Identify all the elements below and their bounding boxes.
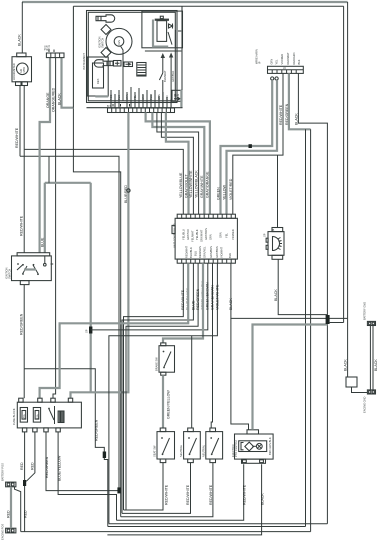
svg-text:FUSE BLOCK: FUSE BLOCK: [12, 408, 16, 425]
instrument panel outer box: [73, 6, 182, 107]
svg-text:15A: 15A: [35, 414, 39, 419]
svg-text:ORANGE: ORANGE: [46, 92, 50, 108]
svg-text:GRN: GRN: [157, 94, 161, 100]
svg-text:ENGINE POS: ENGINE POS: [0, 524, 4, 540]
svg-text:GRN: GRN: [209, 234, 213, 240]
wire hourmeter left pin down: [19, 86, 21, 157]
svg-text:SEAT SW: SEAT SW: [153, 445, 157, 457]
switch blade diagonal: [168, 32, 172, 45]
pin tick right: [178, 30, 181, 32]
diode arrow right of battery: [169, 24, 173, 29]
svg-text:RED/WHITE: RED/WHITE: [181, 289, 185, 310]
svg-text:BATTERY POS: BATTERY POS: [0, 463, 4, 481]
svg-text:ORANGE/RED: ORANGE/RED: [51, 87, 55, 112]
wire RED/GREEN gray to right: [289, 73, 311, 129]
wire RED/WHITE from controller pin1: [124, 263, 184, 510]
svg-text:RED/GREEN: RED/GREEN: [45, 456, 49, 478]
svg-text:VIOLET/WHITE: VIOLET/WHITE: [215, 284, 219, 310]
fuse F1: [20, 408, 27, 423]
svg-text:BLACK: BLACK: [229, 298, 233, 310]
key symbol lower: [94, 60, 113, 67]
svg-text:SP: SP: [262, 233, 266, 237]
svg-text:GRY/ORN: GRY/ORN: [204, 228, 208, 240]
svg-text:RED: RED: [20, 462, 24, 470]
wire RED/WHITE to ignition switch: [23, 149, 25, 252]
svg-text:BLUE/YELLOW: BLUE/YELLOW: [58, 455, 62, 481]
gray stub right edge: [180, 90, 182, 107]
ignition right pin tick: [51, 263, 54, 265]
brake switch S2: [159, 346, 175, 373]
svg-text:RED/WHITE: RED/WHITE: [209, 484, 213, 505]
fuse box FB1: [17, 402, 81, 428]
ignition internal bar gray: [24, 268, 36, 270]
svg-text:VIO/RED: VIO/RED: [231, 229, 235, 240]
wire GRAY/BROWN pin7: [211, 263, 212, 428]
bus line L6: [108, 526, 306, 528]
svg-text:ENGINE GND: ENGINE GND: [363, 396, 367, 413]
svg-text:GRN: GRN: [270, 59, 274, 65]
connector strip under box: [108, 108, 175, 113]
MIDLEFT: [4, 253, 53, 285]
svg-text:RES: RES: [96, 78, 100, 84]
svg-text:GRAY/ORANGE: GRAY/ORANGE: [206, 171, 210, 198]
svg-text:VIOLET/RED: VIOLET/RED: [229, 178, 233, 200]
svg-text:BLUE: BLUE: [40, 237, 44, 247]
RIGHTSIDE: [326, 302, 377, 413]
switch S3: [157, 432, 175, 459]
coil hatch element: [137, 63, 146, 77]
wire RED/GREEN into fusebox: [23, 369, 25, 399]
instrument panel inner box: [87, 11, 178, 103]
RIGHTTOP: [217, 49, 328, 532]
small box with B at right bottom: [172, 90, 182, 101]
svg-text:RED: RED: [24, 510, 28, 518]
svg-text:RED/WHITE: RED/WHITE: [279, 104, 283, 125]
svg-text:YEL: YEL: [133, 95, 137, 100]
svg-text:BLUE/RED: BLUE/RED: [124, 185, 128, 203]
svg-text:INSTRUMENT: INSTRUMENT: [82, 53, 86, 70]
fan wire YELLOW/WHITE: [161, 113, 193, 215]
svg-text:RED/GRN: RED/GRN: [198, 246, 202, 258]
svg-text:YELLOW/WHITE: YELLOW/WHITE: [189, 170, 193, 198]
inline connector box: [346, 377, 357, 387]
node SP splice on x90.7: [89, 327, 92, 334]
svg-text:GRAY/VIOLET: GRAY/VIOLET: [184, 173, 188, 198]
svg-text:YEL/WHT: YEL/WHT: [191, 230, 195, 242]
wire RED/WHITE below S5: [121, 463, 213, 517]
svg-text:BLK: BLK: [297, 59, 301, 64]
wire inner top bus: [73, 5, 343, 7]
CENTER: [40, 155, 348, 524]
wire BLUE horizontal: [45, 182, 91, 184]
wire from inline connector to engine ground: [352, 387, 368, 393]
wire RED/WHITE below S3: [124, 463, 164, 510]
BIGBOX: [71, 6, 210, 398]
svg-text:RED/GRN: RED/GRN: [292, 52, 296, 64]
controller top pin strip: [177, 214, 235, 218]
svg-text:FWD: FWD: [44, 47, 50, 51]
svg-text:GREEN: GREEN: [217, 187, 221, 200]
wire BLACK between ground connectors: [370, 326, 373, 390]
controller left tab: [172, 225, 175, 233]
svg-text:RED/WHITE: RED/WHITE: [15, 127, 19, 148]
svg-text:YEL/BLU: YEL/BLU: [182, 229, 186, 240]
wire RED from fuse box: [24, 432, 26, 532]
bus line L7: [21, 531, 311, 533]
wire border inner to splice: [330, 322, 344, 324]
svg-text:GRY/WHT: GRY/WHT: [200, 229, 204, 242]
wire BLACK pin9 down to PTO: [231, 318, 249, 429]
ignition switch contacts: [17, 263, 19, 265]
node splice on red/green riser: [103, 452, 106, 459]
wire RED/GREEN branch right: [24, 369, 108, 527]
key symbol upper: [96, 15, 115, 22]
battery body: [157, 21, 167, 42]
wire run y151.5 to controller: [24, 149, 183, 214]
svg-text:RED/WHITE: RED/WHITE: [164, 484, 168, 505]
fuse box bottom tabs: [22, 428, 26, 432]
svg-text:RED/WHITE: RED/WHITE: [186, 484, 190, 505]
wire BLUE/BLACK pin2: [122, 263, 193, 513]
svg-text:GRY: GRY: [141, 94, 145, 100]
svg-text:PTO CLUTCH: PTO CLUTCH: [234, 440, 238, 457]
fuse F2: [33, 408, 40, 423]
PTO clutch box: [235, 434, 274, 459]
small component box c: [114, 61, 122, 67]
buzzer symbol: [273, 237, 280, 251]
battery box internal vertical: [174, 30, 176, 47]
wire RED between posts: [10, 487, 12, 528]
svg-text:BLACK: BLACK: [274, 289, 278, 301]
wire RED/WHITE below S4: [122, 463, 191, 514]
wire BLACK to x327.4: [298, 73, 327, 523]
svg-text:BLACK: BLACK: [260, 493, 264, 505]
svg-text:GRN/YEL: GRN/YEL: [203, 246, 207, 258]
wire BLACK below PTO: [107, 464, 261, 535]
battery post B+: [6, 482, 16, 487]
wire run y172 from box edge to bundle: [73, 108, 120, 517]
svg-text:RED/WHITE: RED/WHITE: [19, 215, 23, 236]
up arrow contact 1: [161, 53, 165, 58]
svg-text:GRAY/WHITE: GRAY/WHITE: [200, 175, 204, 198]
wire ORANGE/RED long vertical: [53, 58, 56, 399]
wire BLUE gray pin3: [40, 263, 189, 398]
svg-text:YEL/BLK: YEL/BLK: [195, 229, 199, 240]
wire gray from right blob to PTO: [253, 325, 328, 430]
svg-text:SWITCH: SWITCH: [7, 269, 11, 279]
svg-text:RED/WHT: RED/WHT: [185, 245, 189, 258]
gray bar under resistor box: [95, 95, 108, 97]
wire BLUE drop to ignition switch: [44, 183, 46, 253]
svg-text:SP: SP: [85, 329, 89, 333]
TOPLEFT: [12, 45, 64, 86]
strip pin ticks: [113, 104, 130, 107]
svg-text:GREEN/BROWN: GREEN/BROWN: [206, 282, 210, 310]
hourmeter top tab: [17, 53, 26, 57]
wire BLACK from buzzer: [278, 259, 327, 314]
hourmeter bottom tabs: [16, 82, 22, 86]
BOTTOMCENTER: [21, 325, 328, 535]
svg-text:RED: RED: [109, 94, 113, 100]
svg-text:BRN GRN BLK: BRN GRN BLK: [268, 437, 272, 455]
battery ground connector: [367, 321, 375, 325]
wire to SW2 from bus: [191, 336, 193, 428]
svg-text:YEL: YEL: [274, 59, 278, 64]
switch S5: [206, 432, 223, 459]
ignition blade 1: [17, 265, 23, 271]
battery cap: [155, 19, 169, 21]
wire from ignition contact down: [121, 46, 124, 101]
svg-text:BLACK: BLACK: [57, 93, 61, 105]
svg-text:RED/WHT: RED/WHT: [286, 52, 290, 65]
wire VIOLET/RED: [233, 73, 283, 214]
svg-text:VIO/RED: VIO/RED: [280, 54, 284, 65]
svg-text:RED/GREEN: RED/GREEN: [196, 288, 200, 310]
wire RED/WHITE below PTO: [117, 464, 244, 520]
BOTTOMLEFT: [0, 398, 120, 540]
battery sub-box: [142, 11, 183, 48]
connector J2: [46, 53, 64, 58]
fan wire GRAY/ORANGE: [146, 113, 210, 215]
wire RED/GREEN from ignition switch: [23, 285, 25, 369]
interior divider line: [145, 50, 182, 52]
controller bottom pin strip: [177, 259, 235, 263]
wire RED stub with diagonal: [26, 432, 35, 481]
wire RED/GREEN from fuse box: [46, 432, 119, 491]
switch S4: [184, 432, 201, 459]
resistor sub-box left: [87, 57, 108, 96]
svg-text:RED: RED: [7, 510, 11, 518]
fan wire GRAY/WHITE: [152, 113, 204, 215]
wire right border outer: [347, 2, 349, 318]
svg-text:BLU: BLU: [194, 251, 198, 256]
internal wires to strip: [111, 87, 171, 108]
svg-text:BR: BR: [174, 94, 179, 98]
buzzer U2 box: [268, 232, 284, 256]
up arrow contact 2: [169, 53, 173, 58]
svg-text:RED: RED: [30, 462, 34, 470]
svg-text:BLU: BLU: [149, 95, 153, 100]
diamond upper: [101, 25, 111, 35]
connector J3 top right: [268, 66, 304, 73]
relay K1 coil: [58, 411, 64, 423]
fan wire GRAY/VIOLET: [166, 113, 189, 215]
svg-text:GRN: GRN: [219, 232, 223, 238]
wire ORANGE from connector: [40, 58, 50, 253]
svg-text:NEUTRAL: NEUTRAL: [179, 444, 183, 457]
svg-text:BLK: BLK: [228, 253, 232, 258]
svg-text:BLK/WHT: BLK/WHT: [163, 70, 167, 82]
svg-text:MTR: MTR: [22, 67, 26, 73]
wire GREEN/YELLOW pin5: [91, 263, 208, 330]
svg-text:YEL: YEL: [225, 233, 229, 238]
svg-text:RED/GREEN: RED/GREEN: [285, 103, 289, 125]
svg-text:GRY/VIO: GRY/VIO: [186, 229, 190, 240]
svg-text:B: B: [273, 228, 275, 232]
wire YELLOW gray: [227, 80, 278, 214]
wire GREEN/YELLOW gray below S2: [162, 375, 164, 428]
svg-text:BLACK: BLACK: [18, 34, 22, 46]
ignition pin circle: [44, 263, 47, 266]
svg-text:GRN/BRN: GRN/BRN: [209, 246, 213, 258]
wire BLUE/YELLOW from fuse box: [58, 432, 116, 520]
wire hourmeter right pin down: [23, 86, 25, 150]
svg-text:IP: IP: [258, 61, 262, 64]
svg-text:GRY/BRN: GRY/BRN: [215, 246, 219, 258]
svg-text:YELLOW: YELLOW: [223, 184, 227, 200]
svg-text:BRAKE SW: BRAKE SW: [155, 357, 159, 371]
ignition blade 2: [23, 266, 28, 274]
svg-text:B.S: B.S: [107, 104, 111, 108]
buzzer U2 feed wire: [277, 155, 279, 227]
bus line L5: [109, 523, 328, 525]
svg-text:RED/WHITE: RED/WHITE: [242, 484, 246, 505]
ignition switch circle: [106, 28, 132, 54]
gray bar under battery box: [152, 20, 168, 47]
splice rings under J3: [271, 77, 274, 80]
ignition switch S1 box: [12, 256, 52, 281]
wire from post elbow: [15, 487, 21, 532]
wire BLACK pin9: [231, 263, 348, 318]
wire BLUE/RED gray from strip: [71, 113, 129, 399]
svg-text:YELLOW/BLUE: YELLOW/BLUE: [179, 172, 183, 198]
node splice blob on red: [23, 480, 26, 486]
connector J2 pins above: [49, 50, 54, 53]
ignition switch top strip: [17, 253, 50, 256]
node splice bundle: [117, 487, 120, 493]
ignition blade 3: [33, 265, 38, 274]
node main ground splice: [326, 315, 330, 324]
node splice on green run: [249, 144, 252, 148]
wire BLACK from connector to box edge: [62, 58, 74, 108]
svg-text:VIO/WHT: VIO/WHT: [220, 246, 224, 258]
battery post engine: [6, 528, 16, 533]
svg-text:BATTERY GND: BATTERY GND: [363, 302, 367, 320]
svg-text:BLU/BLK: BLU/BLK: [189, 247, 193, 258]
wire GREEN/BROWN gray pin6: [163, 263, 203, 343]
wire ground run to battery lead: [347, 318, 349, 377]
fan wire YELLOW/BLACK: [157, 113, 199, 215]
wire GREEN gray: [221, 80, 273, 214]
svg-text:BLK: BLK: [117, 95, 121, 100]
wire stub x49: [48, 156, 50, 183]
ignition inner circle: [114, 37, 124, 47]
svg-text:VIO: VIO: [165, 96, 169, 100]
ignition switch bottom tab: [20, 281, 29, 285]
controller U1 main box: [175, 218, 237, 259]
engine ground connector: [367, 390, 375, 394]
WIRES-LEFT: [15, 2, 183, 527]
svg-text:BLACK: BLACK: [343, 359, 347, 371]
hourmeter face: [17, 63, 29, 75]
wire RED/GREEN pin4: [126, 263, 198, 510]
svg-text:20A: 20A: [22, 414, 26, 419]
hourmeter M1 box: [12, 57, 32, 82]
PTO inner: [239, 441, 267, 452]
svg-text:NEUTRAL: NEUTRAL: [201, 444, 205, 457]
svg-text:GREEN/YELLOW: GREEN/YELLOW: [167, 390, 171, 419]
wire RED/WHITE branch to x305.5: [305, 129, 307, 526]
wire run y156 to bundle: [20, 156, 119, 490]
diamond lower: [101, 48, 111, 58]
svg-text:GRAY/BROWN: GRAY/BROWN: [210, 285, 214, 310]
svg-text:YELLOW/BLACK: YELLOW/BLACK: [194, 170, 198, 198]
svg-text:BLACK: BLACK: [294, 113, 298, 125]
wire gray riser x90.7: [90, 183, 92, 392]
wire top border bus (gray): [22, 1, 348, 3]
wire BLACK from top border to hourmeter: [21, 2, 23, 53]
wire VIOLET/WHITE pin8: [109, 263, 217, 524]
svg-text:SWITCH: SWITCH: [101, 38, 105, 48]
svg-text:IGN: IGN: [117, 40, 121, 45]
svg-text:HOURMETER: HOURMETER: [12, 63, 16, 80]
fuse box top tabs: [19, 398, 23, 402]
wire right border inner: [343, 6, 345, 322]
small component box d: [124, 62, 133, 67]
svg-text:GRY/BLK: GRY/BLK: [171, 71, 175, 82]
relay K1 contact: [49, 406, 55, 424]
svg-text:ORN: ORN: [125, 94, 129, 100]
svg-text:BLUE: BLUE: [191, 300, 195, 310]
svg-text:RED/GREEN: RED/GREEN: [19, 313, 23, 335]
svg-text:UNIT CONTROLLER: UNIT CONTROLLER: [173, 223, 177, 248]
svg-text:RED/GREEN: RED/GREEN: [95, 419, 99, 441]
